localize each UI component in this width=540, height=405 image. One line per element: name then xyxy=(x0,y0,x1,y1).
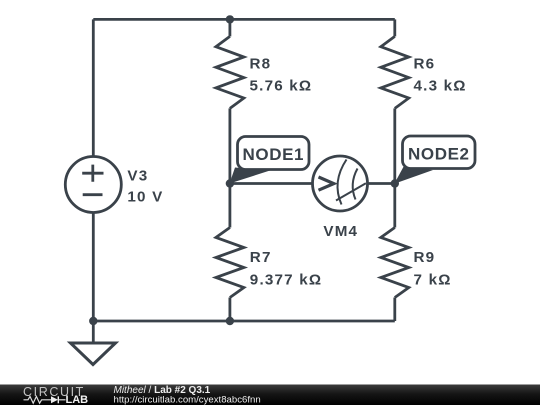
wire bottom rail xyxy=(93,320,395,323)
ground xyxy=(71,321,116,365)
svg-text:R9: R9 xyxy=(414,249,436,266)
svg-text:VM4: VM4 xyxy=(323,223,358,240)
resistor R9 xyxy=(381,184,452,322)
svg-text:10 V: 10 V xyxy=(127,189,163,206)
junction dot bottom (R7 / bottom rail) xyxy=(226,317,234,325)
svg-text:NODE1: NODE1 xyxy=(243,145,305,164)
voltage source V3 xyxy=(65,157,163,213)
CircuitLab logo resistor-diode glyph xyxy=(24,396,52,403)
resistor R6 xyxy=(381,19,467,183)
voltmeter VM4 xyxy=(313,156,368,240)
svg-text:NODE2: NODE2 xyxy=(408,145,470,164)
node NODE2 flag xyxy=(394,136,475,184)
wire mid right (voltmeter to node2) xyxy=(367,182,395,185)
junction dot node2 xyxy=(391,179,399,187)
svg-text:V3: V3 xyxy=(127,167,148,184)
svg-text:R6: R6 xyxy=(414,56,436,73)
wire left rail lower xyxy=(92,212,95,322)
svg-text:7 kΩ: 7 kΩ xyxy=(414,271,452,288)
wire left rail upper xyxy=(92,19,95,157)
node NODE1 flag xyxy=(230,137,310,184)
svg-text:9.377 kΩ: 9.377 kΩ xyxy=(250,271,322,288)
resistor R7 xyxy=(216,184,322,322)
svg-text:4.3 kΩ: 4.3 kΩ xyxy=(414,78,467,95)
junction dot node1 xyxy=(226,179,234,187)
wire top rail xyxy=(93,18,395,21)
svg-text:LAB: LAB xyxy=(66,394,89,405)
svg-text:R8: R8 xyxy=(250,56,272,73)
wire mid left (node1 to voltmeter) xyxy=(230,182,313,185)
svg-text:R7: R7 xyxy=(250,249,272,266)
svg-text:http://circuitlab.com/cyext8ab: http://circuitlab.com/cyext8abc6fnn xyxy=(114,395,261,405)
junction dot ground xyxy=(89,317,97,325)
svg-text:5.76 kΩ: 5.76 kΩ xyxy=(250,78,313,95)
resistor R8 xyxy=(216,19,312,183)
junction dot top (R8 / top rail) xyxy=(226,15,234,23)
